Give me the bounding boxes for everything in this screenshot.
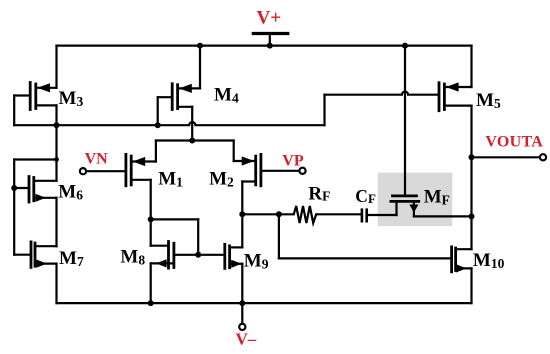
wire M1 drain column — [150, 180, 152, 220]
node VP terminal — [299, 168, 305, 174]
wire CF to MF source lead — [367, 214, 397, 216]
wire node A horizontal with hop over M4 drain — [14, 122, 324, 125]
svg-text:V–: V– — [236, 329, 257, 348]
wire bottom rail V- — [57, 302, 472, 304]
transistor M6 — [14, 177, 56, 203]
svg-text:V+: V+ — [257, 8, 282, 29]
transistor M8 — [151, 242, 174, 269]
svg-text:VP: VP — [282, 153, 304, 170]
wire VOUTA output — [472, 156, 540, 158]
wire RF to CF — [316, 213, 362, 215]
node VN terminal — [80, 168, 86, 174]
gray highlight box around MF — [378, 173, 453, 227]
wire V- stub — [241, 303, 243, 324]
wire M4 gate vertical — [157, 97, 159, 125]
wire node A step up — [323, 95, 325, 126]
wire right rail upper (M5 source) — [470, 46, 472, 87]
wire V+ stub — [269, 34, 271, 46]
wire M10 gate horizontal — [279, 257, 452, 259]
wire M10 source to bottom rail — [470, 268, 472, 303]
resistor RF — [294, 206, 317, 223]
wire node A down to M6 drain — [55, 125, 57, 181]
transistor M2 — [234, 154, 300, 185]
wire MF drain lead to right rail — [414, 215, 472, 217]
transistor M4 — [158, 84, 200, 110]
wire down to M8 drain node — [197, 219, 199, 254]
wire M8 source to bottom rail — [150, 263, 152, 303]
wire M6 source to M7 drain — [55, 198, 57, 246]
wire tail node — [156, 139, 234, 141]
wire M7 source to bottom rail — [55, 264, 57, 304]
wire to M5 gate with hop over MF gate line — [325, 92, 440, 95]
wire M3 gate down left column — [13, 96, 15, 126]
wire M9 source to bottom rail — [241, 264, 243, 303]
transistor M1 — [86, 154, 156, 185]
svg-text:VOUTA: VOUTA — [485, 133, 543, 150]
wire M4 drain column to tail — [191, 107, 193, 141]
transistor M10 — [452, 247, 472, 273]
wire M4 source column — [199, 46, 201, 89]
transistor M7 — [14, 242, 56, 268]
wire left column M3 source to rail — [55, 46, 57, 88]
wire right rail middle (M5 drain to VOUTA to M10 drain) — [470, 106, 472, 250]
wire MF gate column from rail — [404, 46, 406, 196]
wire left gate column M6 M7 — [13, 160, 15, 255]
transistor M5 — [439, 82, 472, 110]
wire node B to RF — [242, 213, 293, 215]
wire M10 gate vertical — [278, 214, 280, 258]
wire M8 drain to M9 gate — [174, 254, 225, 256]
wire branch from M6 drain column to mirror gates — [14, 158, 56, 160]
wire tail to M2 source — [233, 141, 235, 162]
wire M9 drain column — [241, 214, 243, 247]
wire M3 drain down to node A — [55, 105, 57, 125]
transistor MF — [391, 196, 419, 217]
node V- terminal — [239, 324, 245, 330]
svg-text:VN: VN — [85, 151, 109, 168]
wire M1 drain over to M8 drain — [151, 218, 199, 220]
wire top rail V+ — [57, 44, 472, 46]
transistor M3 — [14, 83, 56, 110]
node VOUTA terminal — [540, 154, 546, 160]
transistor M9 — [225, 244, 243, 268]
wire tail to M1 source — [155, 141, 157, 162]
V+ supply bar — [253, 32, 287, 35]
wire M2 drain column — [241, 182, 243, 215]
wire M8 gate column — [150, 219, 152, 245]
capacitor CF — [362, 208, 367, 222]
